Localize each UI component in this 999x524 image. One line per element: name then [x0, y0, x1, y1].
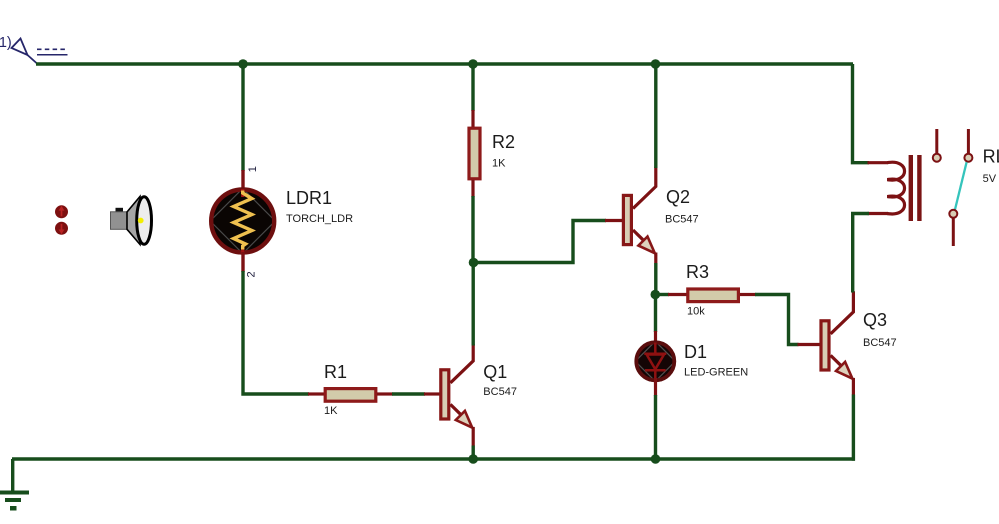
R3 right pin: [740, 293, 756, 296]
transistor Q3: [821, 291, 853, 395]
relay core bars: [909, 155, 913, 221]
wire: R2 branch from top rail: [471, 64, 474, 111]
wire: Q1 emitter to ground rail: [472, 446, 475, 460]
svg-text:BC547: BC547: [665, 213, 699, 225]
R3 left pin: [668, 293, 687, 296]
junction top rail / LDR: [238, 59, 248, 69]
junction top rail / Q2 collector: [651, 59, 661, 69]
wire: D1 to ground rail: [654, 395, 657, 459]
svg-text:TORCH_LDR: TORCH_LDR: [286, 213, 353, 225]
LED D1: [635, 341, 675, 382]
junction ground rail / Q1 emitter: [468, 454, 478, 464]
svg-text:10k: 10k: [687, 306, 705, 318]
svg-text:D1: D1: [684, 342, 707, 362]
wire: R3 to Q3 base: [755, 295, 799, 345]
wire: node to Q1 collector: [472, 262, 475, 346]
svg-text:Q3: Q3: [863, 310, 887, 330]
svg-text:R1: R1: [324, 362, 347, 382]
junction top rail / R2: [468, 59, 478, 69]
svg-text:R2: R2: [492, 132, 515, 152]
svg-text:RL1: RL1: [983, 147, 999, 167]
wire: R2 to Q1 collector node: [471, 196, 474, 263]
wire: R3 node left stub: [655, 293, 669, 296]
relay contact pole lead: [935, 129, 938, 153]
svg-text:Q2: Q2: [666, 187, 690, 207]
R2 bottom pin: [471, 180, 474, 197]
junction R2 bottom node: [469, 258, 479, 268]
wire: Q2 collector to top rail: [654, 64, 657, 168]
indicator button down: [55, 222, 68, 235]
relay throw lead: [952, 219, 955, 247]
indicator button up: [55, 205, 68, 218]
R1 left pin: [308, 392, 324, 395]
resistor R3: [688, 289, 739, 302]
svg-text:1: 1: [247, 166, 259, 172]
power terminal symbol: [12, 39, 38, 64]
wire: relay bottom to Q3 collector: [853, 214, 869, 293]
wire: ground rail: [12, 457, 855, 460]
Q1 base pin: [424, 392, 440, 395]
relay switch blade (cyan): [955, 162, 967, 209]
svg-text:R3: R3: [686, 262, 709, 282]
wire: R1 to Q1 base: [392, 392, 425, 395]
wire: top power rail: [36, 62, 853, 65]
LDR1 pin 2 (red): [241, 252, 244, 272]
D1 bottom pin: [654, 378, 657, 396]
svg-text:(1): (1): [0, 35, 12, 51]
svg-text:BC547: BC547: [483, 386, 517, 398]
wire: node to Q2 base: [473, 221, 606, 263]
wire: Q3 emitter to ground rail: [852, 395, 855, 461]
svg-text:LDR1: LDR1: [286, 188, 332, 208]
svg-text:2: 2: [246, 271, 258, 277]
junction ground rail / D1: [651, 454, 661, 464]
relay coil top pin: [868, 161, 889, 164]
wire: rail to ground symbol: [11, 459, 14, 492]
transistor Q1: [441, 344, 473, 446]
svg-text:1K: 1K: [324, 405, 338, 417]
svg-text:1K: 1K: [492, 157, 506, 169]
relay contact 2: [964, 154, 972, 162]
wire: D1 node down: [654, 294, 657, 332]
D1 top pin: [654, 331, 657, 344]
transistor Q2: [623, 167, 655, 263]
R1 right pin: [377, 392, 393, 395]
relay contact pole: [933, 154, 941, 162]
LDR1 body: [210, 189, 275, 255]
svg-text:Q1: Q1: [483, 362, 507, 382]
svg-text:BC547: BC547: [863, 337, 897, 349]
resistor R1: [325, 389, 376, 402]
wire: LDR to R1: [243, 271, 309, 394]
wire: top rail down to relay: [853, 64, 870, 163]
relay coil bottom pin: [868, 212, 889, 215]
junction R3 / D1 node: [651, 290, 661, 300]
relay throw contact: [949, 210, 957, 218]
resistor R2: [469, 128, 480, 179]
speaker icon: [111, 197, 152, 245]
wire: Q2 emitter down to R3 node: [654, 263, 657, 295]
svg-text:5V: 5V: [983, 173, 997, 185]
svg-text:LED-GREEN: LED-GREEN: [684, 366, 748, 378]
relay RL1 coil: [887, 162, 904, 214]
terminal dashed label line: [37, 48, 68, 50]
R2 top pin: [471, 110, 474, 128]
wire: LDR branch from top rail: [241, 64, 244, 171]
relay contact 2 lead: [967, 129, 970, 153]
ground: [0, 491, 29, 511]
terminal solid label line: [37, 54, 68, 56]
LDR1 pin 1 (red): [241, 170, 244, 190]
Q3 base pin: [798, 343, 822, 346]
Q2 base pin: [605, 219, 623, 222]
